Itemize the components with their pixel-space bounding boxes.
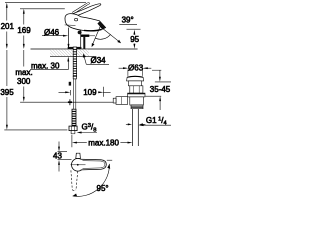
svg-text:max. 30: max. 30 [31,61,60,70]
lever raised position (thin lines) [72,4,86,13]
hose end reference line [4,129,67,131]
hose axis tick [69,99,71,105]
second hose end blob [69,82,71,86]
threaded shank [73,47,76,76]
pop-up plug cap [127,76,144,81]
aerator [97,21,105,29]
deck top line [31,48,138,50]
dimension 395 [6,50,8,130]
svg-text:Ø63: Ø63 [128,63,144,72]
body collar [128,93,145,97]
tailpipe [132,109,134,146]
pop-up rod [78,31,82,35]
pivot dot [75,18,78,21]
svg-text:300: 300 [17,77,31,86]
braided hose [72,109,76,126]
svg-text:95°: 95° [97,184,109,193]
dimension 95 [133,30,135,49]
spout thick underside [84,29,102,30]
dimension 201 [6,3,8,49]
svg-text:39°: 39° [122,16,134,25]
pipe thread arrows [126,123,145,125]
dimension 35-45 [146,70,172,110]
dashed swung lever [71,170,78,190]
39 degree construction [92,27,122,48]
faucet body and spout (side view) [65,14,106,31]
deck hatching [50,49,73,56]
dimension 169 [23,9,25,49]
svg-text:169: 169 [17,26,31,35]
svg-text:43: 43 [53,152,62,161]
lever centerline dash [107,159,112,161]
dimension 43 [58,142,72,172]
extension line (169 level) [20,8,65,10]
svg-text:201: 201 [1,22,15,31]
thread band [131,105,143,109]
base column [69,28,81,49]
thin hose tube [73,79,75,109]
body joint line [65,24,76,27]
plan view: body circle [72,159,85,172]
svg-text:109: 109 [83,88,97,97]
svg-text:35-45: 35-45 [150,85,171,94]
max30 upper arrow on base edge [68,44,70,49]
body lower section [130,97,144,105]
plan view: lever [81,159,107,170]
base gasket [68,47,82,49]
svg-text:max.180: max.180 [88,138,119,147]
spout outlet level ext line [127,28,141,30]
waste body (hex nut) [130,86,143,93]
svg-text:Ø34: Ø34 [91,56,107,65]
svg-text:395: 395 [0,88,14,97]
G3/8 nut [69,126,77,131]
dimension 109 [59,87,111,97]
lever handle (side view) [69,4,101,17]
horizontal reference line (hose level) [20,101,113,103]
plug neck [128,81,141,86]
95 degree arc [73,164,110,197]
svg-text:max.: max. [15,68,32,77]
dimension max.180 [72,135,133,147]
svg-text:95: 95 [130,35,139,44]
plan view: lever tab [76,153,81,158]
dimension max.300 [23,50,25,102]
extension line top (201 level) [5,2,86,4]
hose coupling [73,76,76,79]
deck bottom line [50,55,96,57]
nut thread stub [70,131,72,134]
pop-up lever knob [116,97,128,105]
